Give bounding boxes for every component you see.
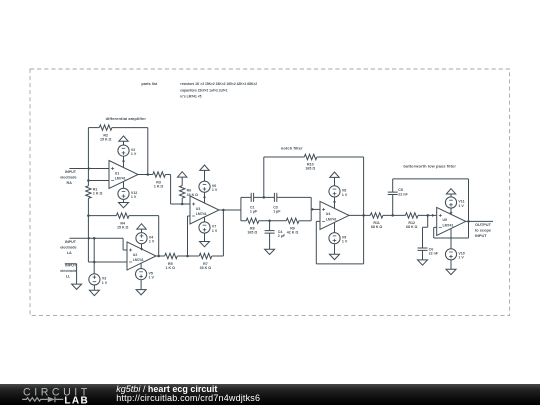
wire twin-T bottom right	[299, 220, 311, 222]
junction V3 stem crossing	[93, 261, 96, 264]
wire LA input	[69, 238, 127, 250]
junction twin-T top / R10 tap	[263, 196, 266, 199]
junction R1 / R4 node	[87, 214, 90, 217]
wire V2 flag stem	[123, 141, 125, 145]
op-amp U4	[320, 201, 349, 229]
wire U1 output	[138, 174, 153, 176]
wire twin-T bottom left	[241, 220, 246, 222]
wire R10 left segment	[264, 156, 305, 158]
wire V10 to ground	[450, 260, 452, 269]
capacitor C1	[251, 193, 253, 202]
wire-end arrow on LA input wire	[88, 237, 91, 240]
junction U3 - input node	[186, 255, 189, 258]
svg-text:165 Ω: 165 Ω	[305, 167, 315, 171]
ground below V7	[200, 242, 210, 247]
wire R6 flag stem	[181, 177, 183, 186]
wire R7 to U3 output	[212, 210, 224, 256]
svg-text:15 K Ω: 15 K Ω	[117, 226, 129, 230]
wire V4 flag stem	[141, 229, 143, 233]
svg-text:1 V: 1 V	[342, 193, 348, 197]
svg-text:1 K Ω: 1 K Ω	[93, 192, 103, 196]
wire R1 node down to U2 - input	[88, 216, 127, 262]
wire twin-T right vertical	[310, 197, 312, 220]
pin arrow V8 to U4	[333, 201, 336, 204]
svg-text:LM741: LM741	[133, 258, 144, 262]
wire twin-T output to U4 + input	[311, 208, 320, 210]
power flag above V11	[446, 189, 455, 194]
svg-text:U2: U2	[133, 253, 138, 257]
junction U5 output	[467, 220, 470, 223]
svg-text:U3: U3	[196, 207, 201, 211]
wire V12 to ground	[123, 199, 125, 202]
ground below V12	[119, 203, 129, 208]
resistor R3	[153, 172, 166, 177]
wire V6 flag stem	[204, 170, 206, 181]
svg-text:1 V: 1 V	[342, 240, 348, 244]
wire U1 feedback left vertical	[87, 128, 89, 181]
power flag above V6	[200, 165, 209, 170]
svg-text:electrode: electrode	[60, 245, 76, 249]
svg-text:to scope: to scope	[475, 227, 492, 232]
svg-text:1 V: 1 V	[458, 204, 464, 208]
wire U4 feedback loop	[316, 215, 363, 264]
wire V6 to U3 V+ pin	[204, 192, 206, 203]
ground below C4	[265, 249, 275, 254]
svg-text:1 V: 1 V	[458, 256, 464, 260]
svg-text:LL: LL	[66, 274, 71, 278]
node INPUT electrode LA label	[60, 240, 77, 255]
junction LA / V3	[93, 237, 96, 240]
wire V11 to U5 V+ pin	[450, 208, 452, 214]
voltage source V9	[329, 233, 340, 244]
wire U3 V- pin to V7	[204, 217, 206, 222]
wire U3 output	[219, 209, 241, 211]
wire R1 top stub	[87, 181, 89, 186]
capacitor C5	[388, 179, 398, 216]
capacitor C4	[265, 221, 275, 249]
svg-text:RA: RA	[67, 181, 73, 185]
svg-text:68 K Ω: 68 K Ω	[371, 225, 383, 229]
wire R10 to U4 output node	[317, 157, 364, 215]
junction R11 / C5	[391, 214, 394, 217]
svg-text:LM741: LM741	[115, 176, 126, 180]
wire U4 output	[349, 214, 370, 216]
wire V3 to ground	[93, 285, 95, 290]
svg-text:http://circuitlab.com/crd7n4wd: http://circuitlab.com/crd7n4wdjtks6	[116, 393, 260, 403]
junction U1 output / feedback	[147, 173, 150, 176]
wire-end arrow into U5 + input	[432, 214, 435, 217]
wire R2 top left segment	[88, 127, 99, 129]
wire V4 to U2 V+ pin	[141, 244, 143, 249]
wire U5 feedback loop	[434, 221, 469, 238]
op-amp U5	[437, 207, 466, 235]
junction twin-T bottom / C4	[268, 220, 271, 223]
svg-text:1 V: 1 V	[149, 276, 155, 280]
svg-text:22 nF: 22 nF	[398, 193, 408, 197]
resistor R8	[246, 218, 259, 223]
svg-text:U5: U5	[443, 218, 448, 222]
ground below LL	[72, 284, 82, 289]
wire R2 to output vertical	[112, 128, 148, 175]
svg-text:notch filter: notch filter	[281, 146, 303, 151]
resistor R7	[199, 253, 212, 258]
wire RA input to U1 + input	[69, 168, 109, 170]
svg-text:INPUT: INPUT	[475, 233, 487, 238]
svg-text:2 µF: 2 µF	[278, 234, 286, 238]
voltage source V8	[329, 186, 340, 197]
svg-text:1 V: 1 V	[102, 281, 108, 285]
svg-text:1 K Ω: 1 K Ω	[166, 266, 176, 270]
wire V2 to U1 V+ pin	[123, 156, 125, 167]
resistor R6	[180, 186, 185, 199]
svg-text:1 V: 1 V	[212, 229, 218, 233]
CircuitLab logo schematic squiggle	[22, 398, 48, 401]
wire R4 to U2 output	[129, 216, 159, 256]
wire R4 left segment	[88, 215, 116, 217]
op-amp U3	[190, 196, 219, 224]
voltage source V3	[89, 274, 100, 285]
wire R12 to U5 + input	[418, 214, 437, 216]
wire-end arrow on RA input wire	[88, 167, 91, 170]
capacitor C6	[418, 215, 428, 260]
svg-text:LM741: LM741	[196, 212, 207, 216]
resistor R4	[116, 213, 129, 218]
voltage source V12	[118, 188, 129, 199]
svg-text:INPUT: INPUT	[65, 240, 77, 244]
capacitor C3	[274, 193, 276, 202]
voltage source V11	[445, 197, 456, 208]
svg-text:C5: C5	[398, 188, 403, 192]
svg-text:resistors 1K ×3 15K×2 33K×2 16: resistors 1K ×3 15K×2 33K×2 165×2 42K×1 …	[180, 82, 257, 86]
node INPUT electrode RA label	[60, 170, 77, 185]
wire R3 to U3 + input	[165, 175, 190, 205]
svg-text:1 µF: 1 µF	[250, 210, 258, 214]
svg-text:1 K Ω: 1 K Ω	[154, 185, 164, 189]
svg-text:OUTPUT: OUTPUT	[475, 222, 492, 227]
svg-text:LAB: LAB	[64, 395, 89, 405]
junction U1 - input / R1	[87, 179, 90, 182]
svg-text:butterworth low pass filter: butterworth low pass filter	[403, 163, 456, 168]
svg-text:parts list: parts list	[141, 82, 158, 86]
wire C5 feedback top	[393, 179, 469, 222]
svg-text:LM741: LM741	[443, 223, 454, 227]
svg-text:ic's LM741 ×5: ic's LM741 ×5	[180, 95, 201, 99]
svg-text:68 K Ω: 68 K Ω	[406, 225, 418, 229]
power flag above R6	[178, 172, 187, 177]
junction R12 / C6 branch	[426, 214, 429, 217]
schematic dashed border frame	[30, 69, 510, 316]
svg-text:INPUT: INPUT	[65, 170, 77, 174]
pin arrow V11 to U5	[450, 212, 453, 215]
svg-text:15 K Ω: 15 K Ω	[100, 138, 112, 142]
resistor R12	[405, 213, 418, 218]
junction R6 / U3 + input	[181, 203, 184, 206]
junction U3 output / R7 feedback	[222, 209, 225, 212]
svg-text:U1: U1	[115, 171, 120, 175]
ground below V3	[89, 290, 99, 295]
wire R10 tap vertical	[263, 157, 265, 197]
svg-text:electrode: electrode	[60, 269, 76, 273]
svg-text:LM741: LM741	[326, 217, 337, 221]
voltage source V2	[118, 145, 129, 156]
wire R11 to R12	[383, 214, 406, 216]
voltage source V10	[445, 249, 456, 260]
svg-text:22 nF: 22 nF	[429, 252, 439, 256]
wire LL to ground	[65, 264, 77, 284]
wire U1 output to R3	[152, 174, 154, 176]
resistor R11	[370, 213, 383, 218]
wire V3 stem from LA node	[93, 238, 95, 273]
svg-text:33 K Ω: 33 K Ω	[187, 193, 199, 197]
wire U2 output row	[156, 255, 165, 257]
svg-text:1 V: 1 V	[131, 152, 137, 156]
op-amp U2	[127, 242, 156, 270]
svg-text:LA: LA	[67, 251, 72, 255]
wire U2 V- pin to V5	[140, 263, 142, 268]
resistor R2	[99, 125, 112, 130]
voltage source V4	[136, 233, 147, 244]
wire twin-T left vertical	[240, 197, 242, 220]
svg-text:R6: R6	[187, 189, 192, 193]
op-amp U1	[109, 161, 138, 189]
pin arrow V6 to U3	[203, 197, 206, 200]
wire V11 flag stem	[450, 194, 452, 197]
voltage source V7	[199, 222, 210, 233]
power flag above V8	[330, 172, 339, 177]
junction U2 output / R4	[157, 255, 160, 258]
wire R1 bottom to R4 node	[87, 198, 89, 215]
resistor R1	[86, 186, 91, 199]
wire R6 bottom stub	[181, 198, 183, 204]
wire U3 - input vertical	[188, 216, 191, 256]
node OUTPUT to scope INPUT label	[475, 222, 492, 238]
svg-text:1 V: 1 V	[212, 188, 218, 192]
junction U4 output / R10 feedback	[362, 214, 365, 217]
ground below V10	[446, 269, 456, 274]
wire twin-T top left	[241, 196, 251, 198]
voltage source V5	[136, 269, 147, 280]
wire twin-T top right	[277, 196, 311, 198]
resistor R10	[304, 154, 317, 159]
svg-text:capacitors 22nf×2 1uf×2 2uf×1: capacitors 22nf×2 1uf×2 2uf×1	[180, 88, 227, 92]
pin arrow V2 to U1	[122, 161, 125, 164]
wire V5 to ground	[140, 280, 142, 290]
wire twin-T input	[240, 209, 242, 211]
ground below V5	[136, 290, 146, 295]
ground below C6	[418, 260, 428, 265]
wire U1 - input row	[88, 180, 109, 182]
wire V8 to U4 V+ pin	[334, 197, 336, 208]
wire V8 flag stem	[334, 177, 336, 185]
svg-text:165 Ω: 165 Ω	[247, 231, 257, 235]
wire-end arrow into U4 + input	[312, 208, 315, 211]
svg-text:U4: U4	[326, 212, 331, 216]
svg-text:electrode: electrode	[60, 176, 76, 180]
voltage source V6	[199, 181, 210, 192]
wire V9 to ground	[334, 244, 336, 255]
resistor R5	[165, 253, 178, 258]
wire C1 to C3	[254, 196, 275, 198]
wire R8 to R9	[259, 220, 287, 222]
svg-text:1 µF: 1 µF	[273, 210, 281, 214]
svg-text:42 K Ω: 42 K Ω	[287, 231, 299, 235]
wire R5 to R7	[177, 255, 199, 257]
wire V7 to ground	[204, 233, 206, 241]
wire U1 V- pin to V12	[123, 182, 125, 189]
power flag above V2	[119, 136, 128, 141]
svg-text:1 V: 1 V	[149, 240, 155, 244]
ground below V9	[330, 254, 340, 259]
svg-text:33 K Ω: 33 K Ω	[200, 266, 212, 270]
node INPUT electrode LL label	[60, 264, 77, 279]
wire U4 V- pin to V9	[334, 222, 336, 232]
svg-text:differential amplifier: differential amplifier	[106, 116, 147, 121]
power flag above V4	[137, 224, 146, 229]
resistor R9	[286, 218, 299, 223]
wire U5 V- pin to V10	[450, 229, 452, 249]
pin arrow V4 to U2	[140, 248, 143, 251]
wire U5 output	[466, 220, 493, 222]
svg-text:1 V: 1 V	[131, 195, 137, 199]
